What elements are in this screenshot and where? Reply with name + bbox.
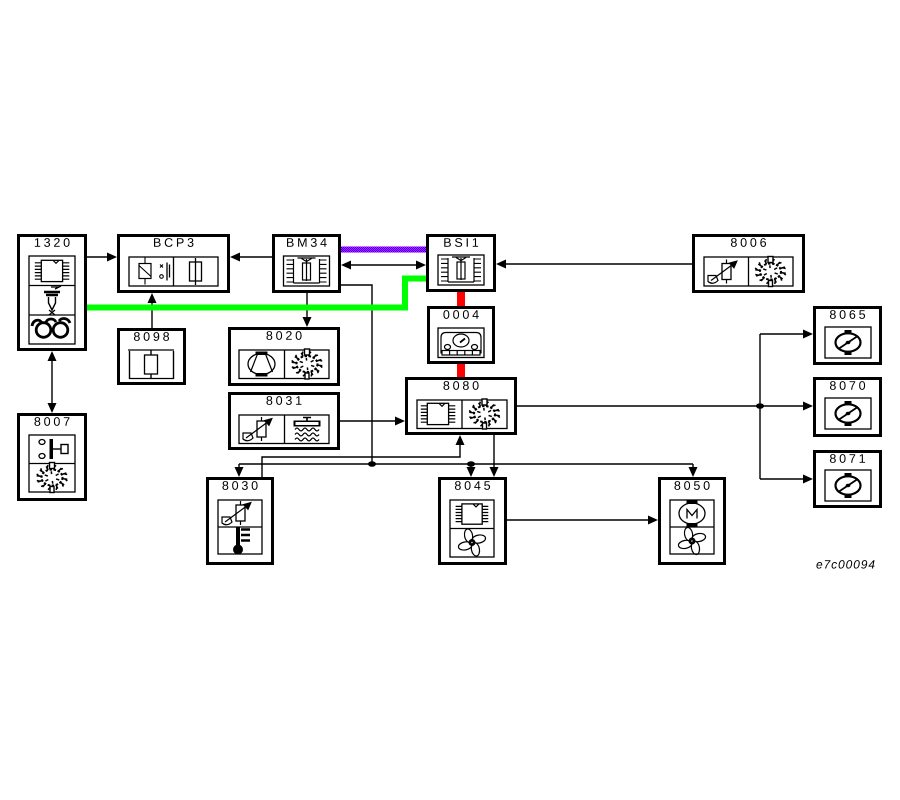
sensor icon [236, 505, 245, 521]
IC chip icon [427, 403, 448, 424]
wire bus to 8071 [760, 475, 813, 484]
actuator frame [825, 398, 871, 429]
ignition coils icon [36, 323, 51, 338]
node junction bus-8045 at (471,464) [467, 461, 475, 467]
fan icon [691, 532, 706, 542]
8020 inner frame [239, 350, 329, 379]
wire 8006 to BSI1 [496, 260, 692, 269]
fusebox icon [284, 256, 330, 286]
wire horizontal bus to 8030/8045/8050 [239, 463, 693, 465]
ECU 1320 inner frame [29, 256, 75, 344]
wire bus drop to 8045 [467, 464, 476, 477]
BCP3 inner frame [129, 257, 218, 286]
8007 inner frame [29, 435, 75, 492]
actuator frame [825, 327, 871, 358]
8030 inner frame [218, 500, 262, 554]
IC chip icon [462, 504, 482, 524]
wire 8080 to actuator bus [517, 405, 760, 407]
ECU box 1320 engine control unit [19, 236, 86, 350]
wire 8031 to 8080 [340, 417, 405, 426]
blower control module 8045 [440, 479, 506, 564]
wire 8098 to BCP3 [148, 293, 157, 328]
wire BM34-BSI1 double arrow [341, 261, 426, 270]
snowflake icon [760, 264, 781, 280]
8050 inner frame [670, 500, 714, 554]
instrument cluster icon [438, 328, 484, 358]
compressor icon [248, 354, 275, 375]
instrument cluster 0004 [429, 308, 494, 363]
8045 inner frame [450, 500, 494, 557]
wire 8030 to 8080 [262, 435, 465, 477]
wire 1320-8007 double arrow [48, 351, 57, 413]
node junction BM34 bus at (372,464) [368, 461, 376, 467]
wire actuator bus vertical [759, 334, 761, 479]
fuse box BM34 [274, 236, 340, 292]
resistor icon [128, 349, 174, 351]
blower motor 8050 [660, 479, 725, 564]
evaporator temp sensor 8030 [208, 479, 273, 564]
wire BM34 to BCP3 [230, 253, 272, 262]
wire red 0004 to 8080 (thick red) [457, 363, 465, 378]
AC control unit 8080 [407, 379, 516, 434]
8080 inner frame [417, 400, 507, 429]
fusebox icon [438, 255, 484, 285]
flap actuator 8070 [815, 379, 881, 436]
wire green BM34/1320 to BSI1 (thick green) [87, 279, 427, 308]
flap actuator 8065 [815, 308, 881, 364]
wire bus drop to 8050 [689, 464, 698, 477]
coolant sensor icon [257, 421, 266, 437]
injector icon [51, 286, 61, 289]
AC switch 8007 [19, 415, 86, 500]
flap actuator icon [836, 476, 861, 494]
wire BM34 to 8020 [303, 293, 312, 327]
snowflake icon [42, 470, 63, 486]
blower resistor 8098 [119, 330, 185, 384]
AC switch icon [39, 440, 45, 445]
AC compressor 8020 [230, 329, 339, 385]
snowflake icon [297, 356, 318, 372]
IC chip icon [41, 260, 62, 281]
wire bus drop to 8030 [235, 464, 244, 477]
wire 8045 to 8050 [507, 516, 658, 525]
thermometer icon [236, 528, 240, 546]
pressure sensor icon [722, 264, 731, 280]
wire bus to 8070 [760, 402, 813, 411]
wire purple data bus BM34-BSI1 (blue/magenta dither) [341, 247, 427, 253]
actuator frame [825, 470, 871, 501]
body control unit BSI1 [428, 236, 495, 291]
wire bus to 8065 [760, 330, 813, 339]
wire BM34 right to bus node [341, 285, 372, 464]
flap actuator 8071 [815, 452, 881, 507]
AC pressure switch 8006 [694, 236, 804, 292]
flap actuator icon [836, 404, 861, 422]
fuse icon [190, 262, 202, 281]
fuse/relay box BCP3 [119, 236, 229, 292]
relay icon [139, 264, 151, 279]
8006 inner frame [704, 257, 793, 286]
caption e7c00094 [816, 560, 874, 568]
wire red BSI1 to 0004 (thick red) [457, 291, 465, 307]
radiator icon [303, 418, 311, 421]
flap actuator icon [836, 333, 861, 351]
wire 8080 to 8045 [490, 435, 499, 477]
snowflake icon [474, 406, 495, 422]
coolant temp sensor 8031 [230, 394, 339, 449]
motor icon [679, 503, 705, 524]
fan icon [471, 534, 486, 544]
8031 inner frame [239, 415, 329, 444]
node junction actuator bus at (760,406) [756, 403, 764, 409]
wire 1320 to BCP3 [87, 253, 117, 262]
